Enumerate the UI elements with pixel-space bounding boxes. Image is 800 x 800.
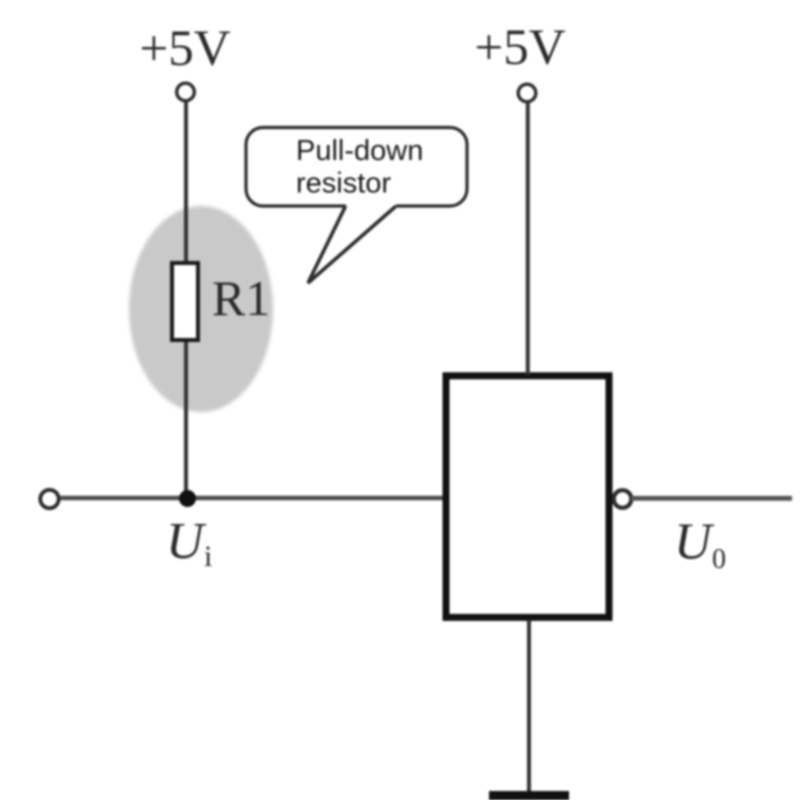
resistor R1 body [172, 263, 198, 340]
svg-text:resistor: resistor [296, 168, 391, 200]
ground bar (partially cropped at bottom) [489, 791, 569, 800]
logic gate box U1 [446, 376, 609, 618]
svg-text:+5V: +5V [474, 20, 565, 76]
wire from gate box bottom down to ground [527, 620, 531, 792]
terminal circle +5V right [518, 84, 536, 102]
wire from +5V left terminal down to node Ui [184, 101, 188, 497]
svg-text:U: U [166, 513, 207, 570]
terminal circle +5V left [177, 83, 195, 101]
svg-text:+5V: +5V [139, 21, 230, 77]
svg-text:U: U [674, 514, 715, 571]
wire from +5V right terminal down to gate box top [526, 102, 530, 375]
label Uo [674, 514, 726, 576]
svg-text:Pull-down: Pull-down [296, 135, 423, 167]
output wire (horizontal) to right edge [631, 496, 792, 501]
speech bubble callout "Pull-down resistor" [246, 128, 467, 284]
input terminal circle (left end of input wire) [40, 490, 58, 508]
output inversion bubble on gate [614, 490, 632, 508]
label Ui [166, 513, 212, 573]
svg-text:0: 0 [712, 544, 726, 575]
input wire (horizontal) from input terminal to gate box [60, 496, 446, 500]
highlight ellipse around R1 [129, 206, 273, 412]
node Ui junction dot [179, 490, 196, 507]
svg-text:i: i [204, 540, 212, 573]
svg-text:R1: R1 [212, 270, 270, 326]
